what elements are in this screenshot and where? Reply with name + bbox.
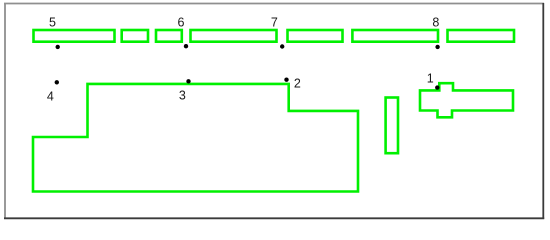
slot rectangle 8 [352,30,438,42]
svg-text:2: 2 [294,76,301,90]
keyed connector outline (item 1) [420,83,513,117]
svg-text:7: 7 [271,15,278,29]
small slot rectangle b [156,30,182,42]
marker dot 6 [184,44,188,48]
marker dot 1 [435,85,439,89]
small vertical rectangle [386,98,398,154]
marker dot 3 [186,79,190,83]
marker dot 5 [56,45,60,49]
svg-text:3: 3 [179,89,186,103]
svg-text:4: 4 [47,89,54,103]
frame bottom edge [4,217,544,219]
slot rectangle 5 [34,30,115,42]
marker dot 4 [55,80,59,84]
svg-text:5: 5 [49,15,56,29]
marker dot 2 [284,78,288,82]
large stepped region outline (items 2,3) [33,84,358,192]
frame right edge [542,3,544,219]
slot rectangle 6 [191,30,277,42]
marker dot 7 [280,44,284,48]
frame top edge [4,3,544,5]
svg-text:1: 1 [427,71,434,85]
svg-text:8: 8 [432,15,439,29]
frame left edge [4,3,6,219]
svg-text:6: 6 [178,15,185,29]
slot rectangle right [448,30,515,42]
small slot rectangle a [122,30,148,42]
marker dot 8 [435,45,439,49]
slot rectangle 7 [288,30,343,42]
